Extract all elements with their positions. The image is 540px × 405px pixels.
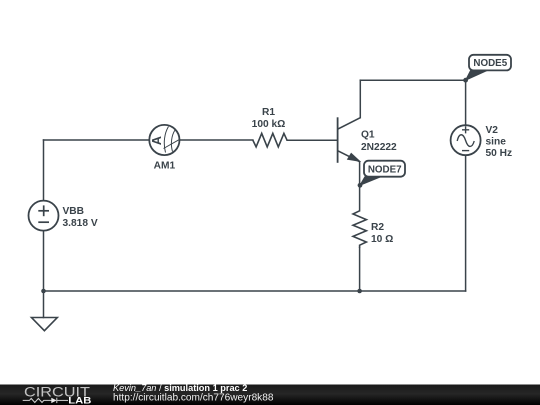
svg-text:R2: R2 [371,222,384,233]
wire: bottom rail [44,290,466,292]
wire: right side NODE5 junction down to V2 top [465,80,467,125]
wire: Q1 collector vertical riser [359,80,361,118]
label R1 [262,107,275,118]
junction: ground node [41,289,46,294]
value sine [486,136,507,147]
node NODE5 [463,55,511,83]
svg-text:Kevin_7an / simulation 1 prac: Kevin_7an / simulation 1 prac 2 [113,383,247,393]
wire: left vertical (corner down to VBB +) [43,140,45,201]
transistor Q1 [338,117,361,163]
resistor R1 [253,133,287,147]
svg-text:2N2222: 2N2222 [361,142,397,153]
wire: top horizontal (collector to NODE5 junction) [360,79,465,81]
wire: R1 to Q1 base [287,139,338,141]
CircuitLab logo [23,385,92,405]
wire: VBB - down to ground junction [43,231,45,291]
svg-text:10 Ω: 10 Ω [371,234,393,245]
resistor R2 [353,211,366,248]
svg-text:http://circuitlab.com/ch776wey: http://circuitlab.com/ch776weyr8k88 [113,393,274,404]
svg-text:LAB: LAB [68,396,91,405]
footer url [113,393,274,404]
svg-text:AM1: AM1 [154,161,176,172]
footer bar [0,385,540,405]
svg-text:Q1: Q1 [361,130,375,141]
label Q1 [361,130,375,141]
wire: Q1 emitter vertical down to R2 top [359,162,361,211]
label R2 [371,222,384,233]
voltage source V2 [451,125,481,155]
wire: AM1 right terminal to R1 [180,139,253,141]
svg-text:sine: sine [486,136,507,147]
footer title [113,383,247,393]
svg-text:3.818 V: 3.818 V [63,218,98,229]
svg-text:R1: R1 [262,107,275,118]
label V2 [486,125,499,136]
svg-text:A: A [149,136,164,145]
wire: R2 bottom to bottom rail [359,248,361,291]
value 3.818 V [63,218,98,229]
svg-text:NODE7: NODE7 [368,164,402,175]
svg-text:NODE5: NODE5 [473,58,507,69]
svg-text:V2: V2 [486,125,499,136]
label VBB [63,206,85,217]
value 2N2222 [361,142,397,153]
ground [32,318,58,331]
wire: V2 bottom down to bottom rail [465,155,467,291]
label AM1 [154,161,176,172]
wire: top-left horizontal (corner to AM1 left terminal) [44,139,150,141]
junction: bottom of R2 on bottom rail [357,289,362,294]
svg-text:50 Hz: 50 Hz [486,148,513,159]
value 100 kΩ [252,119,286,130]
svg-text:VBB: VBB [63,206,85,217]
value 10 Ω [371,234,393,245]
wire: ground stub [43,291,45,318]
voltage source VBB [29,201,59,231]
value 50 Hz [486,148,513,159]
ammeter AM1 [149,125,179,155]
node NODE7 [358,161,405,188]
svg-text:100 kΩ: 100 kΩ [252,119,286,130]
